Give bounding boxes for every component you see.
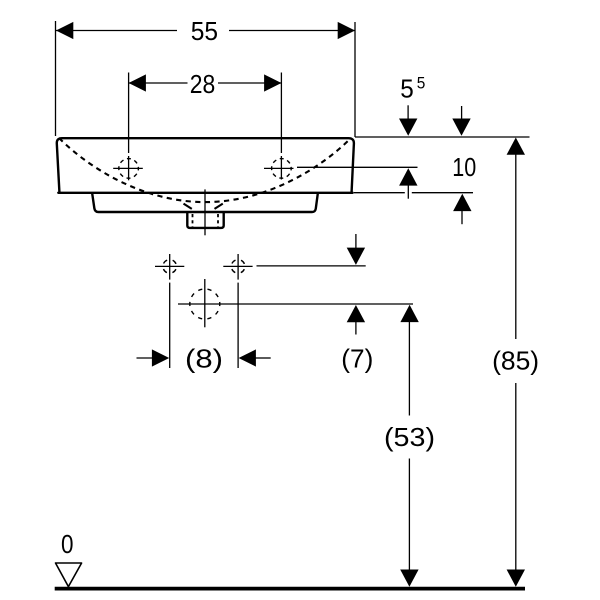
dimension (85) lower stem: [515, 383, 517, 571]
drain cross vertical: [204, 279, 206, 327]
dimension (8) left arrow stem: [137, 357, 154, 359]
dimension 10 lower arrowhead: [453, 194, 471, 211]
dimension 28 right extension line: [280, 73, 282, 154]
dimension 5.5 lower arrow stem: [407, 185, 409, 199]
svg-text:(8): (8): [185, 344, 223, 374]
svg-text:(85): (85): [492, 346, 539, 376]
dimension (53) lower stem: [408, 459, 410, 571]
dimension (7) lower arrow stem: [355, 321, 357, 335]
left faucet hole cross horizontal: [113, 167, 143, 169]
dimension (53) upper arrowhead: [400, 305, 418, 322]
dimension (8) right arrowhead: [239, 349, 256, 366]
dimension 5.5 upper arrow stem: [407, 105, 409, 120]
dimension (85) lower arrowhead: [507, 570, 525, 587]
washbasin body bottom edge: [58, 192, 352, 194]
centerline through drain box: [204, 189, 206, 235]
left mounting hole cross horizontal: [155, 265, 184, 267]
faucet height reference line: [264, 167, 294, 169]
dimension 55 right arrowhead: [338, 22, 355, 39]
svg-text:(53): (53): [384, 422, 435, 452]
svg-text:28: 28: [190, 69, 216, 99]
left faucet hole dashed circle: [119, 159, 139, 179]
svg-text:0: 0: [61, 529, 74, 559]
svg-text:10: 10: [452, 152, 476, 182]
dimension (8) right arrow stem: [255, 357, 271, 359]
left faucet hole cross vertical: [128, 156, 130, 180]
left mounting hole cross vertical: [169, 254, 171, 280]
dimension 28 line right segment: [218, 82, 281, 84]
svg-text:5: 5: [400, 74, 414, 104]
dimension (8) right extension line: [237, 283, 239, 368]
dimension 28 left arrowhead: [129, 74, 146, 91]
dimension 10 upper arrowhead: [452, 119, 470, 136]
drain dashed circle: [190, 289, 220, 319]
drain trap box: [187, 213, 223, 228]
washbasin apron second tier: [92, 194, 318, 213]
dimension (7) upper arrowhead: [347, 248, 365, 265]
washbasin bowl hidden edge (dashed): [59, 138, 351, 202]
dimension 55 right extension line: [354, 22, 356, 137]
dimension 28 right arrowhead: [264, 74, 281, 91]
datum triangle symbol: [56, 563, 82, 587]
washbasin body outline: [57, 138, 354, 192]
rim level reference line: [355, 136, 530, 138]
right mounting hole dashed circle: [231, 260, 245, 274]
dimension (53) lower arrowhead: [400, 570, 418, 587]
dimension (8) left extension line: [169, 283, 171, 368]
dimension 5.5 lower arrowhead: [399, 168, 417, 185]
body bottom reference line: [354, 192, 405, 194]
dimension (8) left arrowhead: [152, 349, 169, 366]
dimension 55 left extension line: [55, 21, 57, 136]
dimension 55 left arrowhead: [56, 22, 73, 39]
dimension 28 line left segment: [129, 82, 188, 84]
mounting holes reference line: [257, 265, 366, 267]
svg-text:5: 5: [417, 74, 426, 93]
dimension 10 lower arrow stem: [461, 211, 463, 225]
dimension 10 upper arrow stem: [461, 106, 463, 120]
dimension (85) upper stem: [515, 155, 517, 340]
dimension (53) upper stem: [408, 321, 410, 416]
bowl outlet funnel hidden lines (dashed): [184, 204, 192, 209]
dimension 28 left extension line: [128, 73, 130, 154]
right faucet hole cross vertical: [280, 156, 282, 180]
svg-text:55: 55: [191, 16, 218, 46]
svg-text:(7): (7): [341, 344, 373, 374]
dimension 5.5 upper arrowhead: [399, 119, 417, 136]
dimension (85) upper arrowhead: [507, 138, 525, 155]
right mounting hole cross vertical: [237, 254, 239, 280]
dimension 55 line left segment: [56, 30, 177, 32]
drain axis reference line: [178, 303, 413, 305]
dimension (7) upper arrow stem: [355, 234, 357, 249]
left mounting hole dashed circle: [163, 260, 177, 274]
floor line: [55, 587, 525, 591]
dimension (7) lower arrowhead: [347, 305, 365, 322]
drain pipe hidden lines (dashed): [192, 214, 194, 227]
dimension 55 line right segment: [229, 30, 355, 32]
right mounting hole cross horizontal: [223, 265, 252, 267]
right faucet hole dashed circle: [272, 159, 292, 179]
